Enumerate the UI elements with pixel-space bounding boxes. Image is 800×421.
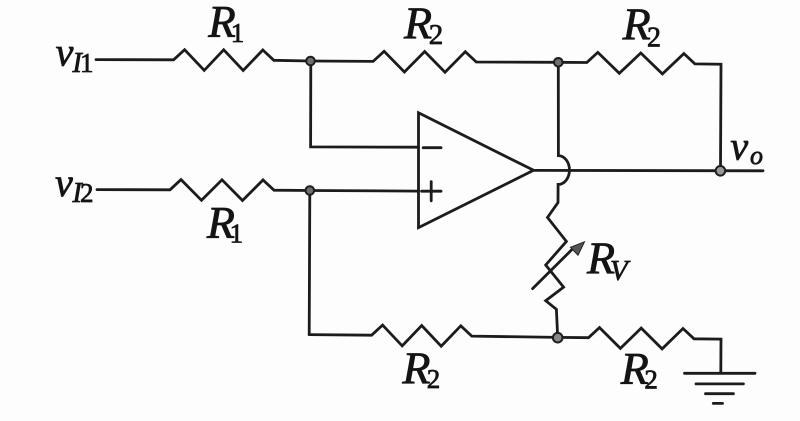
svg-text:v: v [730,124,748,169]
svg-text:1: 1 [80,48,94,78]
svg-text:2: 2 [647,22,661,53]
svg-text:v: v [55,160,73,205]
svg-text:2: 2 [429,19,444,51]
svg-text:o: o [750,141,763,170]
svg-text:2: 2 [427,364,441,394]
svg-text:1: 1 [230,218,244,248]
svg-text:2: 2 [644,365,658,395]
svg-text:1: 1 [231,18,245,48]
svg-text:2: 2 [80,178,94,208]
svg-text:v: v [56,29,74,74]
svg-text:R: R [403,0,432,49]
